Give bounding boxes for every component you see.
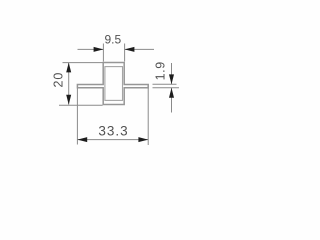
svg-text:9.5: 9.5 [104,32,121,46]
dim 9.5 line left tail [78,48,104,50]
dim 1.9 bottom arrow tail [171,88,173,113]
dim 33.3 extension line left [76,88,78,144]
dim 20 extension line bottom [59,104,103,106]
profile outer outline (tube with side fins) [77,63,148,105]
dim 1.9 arrow top (pointing down) [169,74,174,84]
dim 9.5 arrow right (pointing left) [125,47,135,52]
dim 9.5 extension line left [102,44,104,62]
dim 20 arrow top (pointing up) [66,63,71,73]
dim 20 extension line top [63,62,103,64]
dim 33.3 line [77,139,148,141]
dim 1.9 top arrow tail [171,63,173,84]
dim 9.5 arrow left (pointing right) [94,47,104,52]
svg-text:1.9: 1.9 [154,61,168,80]
dim 33.3 arrow left (pointing left) [77,137,87,142]
dim 1.9 extension line bottom [153,87,180,89]
dim 33.3 arrow right (pointing right) [138,137,148,142]
svg-text:33.3: 33.3 [98,123,128,138]
dim 20 arrow bottom (pointing down) [66,95,71,105]
dim 33.3 extension line right [147,88,149,145]
dim 9.5 line right tail [125,48,154,50]
dim 1.9 arrow bottom (pointing up) [169,88,174,98]
dim 9.5 extension line right [124,44,126,62]
profile inner hollow [105,67,123,101]
dim 20 line [68,63,70,105]
svg-text:20: 20 [52,72,66,88]
dim 1.9 extension line top [153,83,177,85]
